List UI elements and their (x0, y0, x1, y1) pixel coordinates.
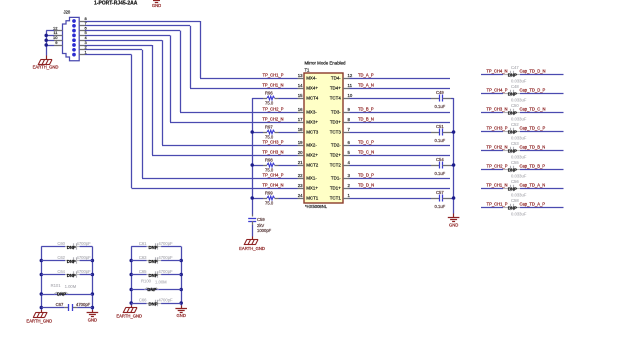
svg-text:10: 10 (53, 35, 58, 40)
svg-text:C49: C49 (436, 90, 444, 95)
svg-text:TCT3: TCT3 (330, 130, 342, 135)
capacitor C61 4700pF DNP (131, 246, 146, 248)
svg-text:EARTH_GND: EARTH_GND (116, 314, 142, 319)
J20 pin 10 stub (54, 40, 63, 42)
junction ladder right rail (91, 292, 95, 296)
svg-text:TCT4: TCT4 (330, 96, 342, 101)
earth ground stub (46, 56, 48, 60)
wire J20 pin 4 vertical drop (162, 40, 164, 145)
wire J20 pin 1 vertical drop (131, 55, 133, 188)
earth ground EARTH_GND (ladder) (41, 310, 43, 312)
connector J20 pin contact 3 (72, 43, 76, 47)
T1 pin 1 (TCT1) (343, 198, 350, 200)
wire ladder left rail (131, 247, 133, 306)
capacitor C67 4700pF (41, 307, 64, 309)
wire J20 pin 1 horizontal (85, 54, 132, 56)
svg-text:0.033uF: 0.033uF (511, 154, 527, 159)
svg-text:TD2+: TD2+ (330, 153, 341, 158)
T1 pin 16 (MX3-) (298, 112, 305, 114)
capacitor C66 4700pF DNP (131, 303, 146, 305)
junction ladder left rail (40, 273, 44, 277)
capacitor C57 0.1uF (350, 198, 432, 200)
svg-text:MX3-: MX3- (306, 110, 317, 115)
svg-text:TD_B_N: TD_B_N (358, 117, 374, 122)
J20 pin 7 stub (79, 25, 85, 27)
connector J20 pin contact 6 (72, 29, 76, 33)
wire net Cap_TD_C_P (520, 131, 564, 133)
svg-text:T1: T1 (305, 68, 311, 73)
wire into transformer row y=155 (152, 155, 298, 157)
svg-text:21: 21 (298, 160, 303, 165)
junction TCT bus (452, 163, 456, 167)
svg-text:C52: C52 (511, 122, 519, 127)
svg-text:13: 13 (298, 73, 303, 78)
resistor R100 1.00M DNP (131, 289, 181, 291)
svg-text:DNP: DNP (67, 259, 76, 264)
capacitor C47 0.033uF DNP (503, 74, 510, 76)
capacitor C62 4700pF DNP (41, 260, 65, 262)
svg-text:TD_C_N: TD_C_N (358, 150, 374, 155)
svg-text:TD_D_N: TD_D_N (358, 183, 374, 188)
svg-text:4700pF: 4700pF (158, 298, 173, 303)
svg-text:TD1+: TD1+ (330, 186, 341, 191)
wire J20 pin 2 vertical drop (142, 50, 144, 178)
svg-text:MCT3: MCT3 (306, 130, 319, 135)
svg-text:DNP: DNP (57, 292, 66, 297)
wire MCT common rail (252, 98, 254, 215)
ground GND (ladder) (181, 306, 183, 309)
svg-text:75.0: 75.0 (265, 168, 274, 173)
svg-text:0.1uF: 0.1uF (435, 171, 446, 176)
ground GND (TCT bus) (453, 214, 455, 218)
resistor R97 75.0 (252, 132, 263, 134)
svg-text:DNP: DNP (149, 301, 158, 306)
capacitor C53 0.033uF DNP (503, 150, 510, 152)
svg-text:18: 18 (298, 127, 303, 132)
wire net TP_CH2_N (481, 150, 503, 152)
svg-text:TD_A_N: TD_A_N (358, 83, 374, 88)
junction ladder left rail (129, 301, 133, 305)
svg-text:Cap_TD_C_N: Cap_TD_C_N (520, 107, 546, 112)
svg-text:C57: C57 (436, 190, 444, 195)
capacitor C59 2kV 1000pF (252, 215, 254, 217)
resistor R99 75.0 (252, 198, 263, 200)
svg-text:1.00M: 1.00M (155, 280, 167, 285)
wire net TD_B_N (350, 122, 451, 124)
svg-text:C48: C48 (511, 84, 519, 89)
svg-text:TP_CH1_P: TP_CH1_P (487, 202, 508, 207)
T1 pin 5 (TD2+) (343, 155, 350, 157)
wire net Cap_TD_C_N (520, 112, 564, 114)
svg-text:0.033uF: 0.033uF (511, 135, 527, 140)
svg-text:C47: C47 (511, 65, 519, 70)
svg-text:R99: R99 (265, 191, 273, 196)
junction ladder right rail (91, 273, 95, 277)
T1 pin 2 (TD1+) (343, 188, 350, 190)
T1 pin 20 (MX2+) (298, 155, 305, 157)
junction ladder left rail (40, 292, 44, 296)
junction MCT rail (250, 130, 254, 134)
ground GND (ladder) (92, 310, 94, 313)
capacitor C50 0.033uF DNP (503, 112, 510, 114)
junction ladder right rail (179, 259, 183, 263)
wire J20 pin 2 horizontal (85, 49, 142, 51)
svg-text:C55: C55 (511, 160, 519, 165)
svg-text:1.00M: 1.00M (65, 284, 77, 289)
junction ladder left rail (129, 288, 133, 292)
svg-text:23: 23 (298, 183, 303, 188)
T1 pin 18 (MCT3) (298, 132, 305, 134)
svg-text:20: 20 (298, 150, 303, 155)
wire net TD_B_P (350, 112, 451, 114)
svg-text:1000pF: 1000pF (257, 228, 272, 233)
wire net TP_CH2_P (481, 169, 503, 171)
svg-text:TP_CH4_N: TP_CH4_N (486, 69, 507, 74)
svg-text:TD4-: TD4- (331, 76, 341, 81)
wire into transformer row y=112 (180, 112, 298, 114)
wire J20 pin 7 horizontal (85, 25, 190, 27)
T1 pin 22 (MX1-) (298, 178, 305, 180)
wire J20 pin 8 vertical drop (200, 21, 202, 78)
svg-text:R101: R101 (51, 283, 62, 288)
svg-text:TP_CH4_N: TP_CH4_N (262, 183, 283, 188)
T1 pin 14 (MX4+) (298, 88, 305, 90)
junction ladder left rail (40, 306, 44, 310)
svg-text:TP_CH4_P: TP_CH4_P (263, 173, 284, 178)
J20 pin 8 stub (79, 21, 85, 23)
wire J20 pin 5 horizontal (85, 35, 170, 37)
svg-text:12: 12 (53, 25, 58, 30)
svg-text:22: 22 (298, 173, 303, 178)
T1 pin 17 (MX3+) (298, 122, 305, 124)
wire into transformer row y=145 (162, 145, 298, 147)
svg-text:DNP: DNP (147, 287, 156, 292)
svg-text:R100: R100 (141, 279, 152, 284)
J20 pin 9 stub (54, 45, 63, 47)
svg-text:TP_CH1_N: TP_CH1_N (262, 83, 283, 88)
svg-text:DNP: DNP (67, 245, 76, 250)
svg-text:GND: GND (152, 3, 161, 8)
connector J20 pin contact 2 (72, 48, 76, 52)
svg-text:Cap_TD_C_P: Cap_TD_C_P (520, 126, 546, 131)
T1 pin 19 (MX2-) (298, 145, 305, 147)
T1 pin 23 (MX1+) (298, 188, 305, 190)
svg-text:75.0: 75.0 (265, 201, 274, 206)
J20 pin 5 stub (79, 35, 85, 37)
T1 pin 4 (TCT2) (343, 165, 350, 167)
svg-text:TP_CH2_P: TP_CH2_P (263, 107, 284, 112)
svg-text:EARTH_GND: EARTH_GND (33, 65, 59, 70)
svg-text:DNP: DNP (508, 73, 517, 78)
T1 pin 15 (MCT4) (298, 98, 305, 100)
wire net TD_A_P (350, 78, 451, 80)
wire J20 pin 5 vertical drop (170, 35, 172, 122)
svg-text:TP_CH3_P: TP_CH3_P (263, 140, 284, 145)
svg-text:TCT2: TCT2 (330, 163, 342, 168)
connector J20 body (63, 17, 80, 60)
wire J20 pin 6 horizontal (85, 30, 180, 32)
capacitor C48 0.033uF DNP (503, 93, 510, 95)
svg-text:C51: C51 (436, 124, 444, 129)
wire net TP_CH3_P (481, 131, 503, 133)
svg-text:MX4-: MX4- (306, 76, 317, 81)
svg-text:4700pF: 4700pF (158, 255, 173, 260)
svg-text:Cap_TD_B_P: Cap_TD_B_P (520, 164, 546, 169)
svg-text:*HX5008NL: *HX5008NL (305, 204, 328, 209)
connector J20 pin contact 5 (72, 34, 76, 38)
svg-text:MX2+: MX2+ (306, 153, 318, 158)
wire ladder right rail (92, 247, 94, 311)
svg-text:10: 10 (348, 93, 353, 98)
wire J20 pin 3 vertical drop (152, 45, 154, 155)
capacitor C49 0.1uF (350, 98, 432, 100)
svg-text:GND: GND (449, 223, 458, 228)
junction TCT bus (452, 130, 456, 134)
svg-text:19: 19 (298, 140, 303, 145)
svg-text:C58: C58 (511, 198, 519, 203)
resistor R96 75.0 (252, 98, 263, 100)
capacitor C60 4700pF DNP (41, 246, 65, 248)
svg-text:TD1-: TD1- (331, 176, 341, 181)
svg-text:C63: C63 (139, 255, 147, 260)
svg-text:TP_CH4_P: TP_CH4_P (487, 88, 508, 93)
junction ladder left rail (40, 259, 44, 263)
junction on shield rail (44, 38, 48, 42)
svg-text:4700pF: 4700pF (77, 255, 92, 260)
svg-text:17: 17 (298, 117, 303, 122)
svg-text:TP_CH3_P: TP_CH3_P (487, 126, 508, 131)
svg-text:C64: C64 (57, 269, 65, 274)
wire into transformer row y=78 (200, 78, 298, 80)
svg-text:R96: R96 (265, 91, 273, 96)
svg-text:4700pF: 4700pF (158, 241, 173, 246)
svg-text:DNP: DNP (149, 259, 158, 264)
svg-text:14: 14 (298, 83, 303, 88)
junction MCT rail (250, 196, 254, 200)
T1 pin 7 (TCT3) (343, 132, 350, 134)
svg-text:R97: R97 (265, 125, 273, 130)
svg-text:0.033uF: 0.033uF (511, 211, 527, 216)
svg-text:C53: C53 (511, 141, 519, 146)
wire net Cap_TD_A_P (520, 207, 564, 209)
svg-text:DNP: DNP (508, 206, 517, 211)
svg-text:0.1uF: 0.1uF (435, 138, 446, 143)
svg-text:0.1uF: 0.1uF (435, 204, 446, 209)
svg-text:TD_A_P: TD_A_P (358, 73, 374, 78)
T1 pin 11 (TD4+) (343, 88, 350, 90)
J20 pin 1 stub (79, 54, 85, 56)
wire ladder right rail (181, 247, 183, 306)
wire TCT ground bus (453, 98, 455, 214)
svg-text:0.033uF: 0.033uF (511, 78, 527, 83)
capacitor C56 0.033uF DNP (503, 188, 510, 190)
svg-text:J20: J20 (64, 10, 71, 15)
svg-text:TD2-: TD2- (331, 143, 341, 148)
capacitor C52 0.033uF DNP (503, 131, 510, 133)
capacitor C63 4700pF DNP (131, 260, 146, 262)
svg-text:Cap_TD_D_P: Cap_TD_D_P (520, 88, 546, 93)
wire into transformer row y=188 (132, 188, 298, 190)
svg-text:MCT1: MCT1 (306, 196, 319, 201)
svg-text:11: 11 (348, 83, 353, 88)
svg-text:C50: C50 (511, 103, 519, 108)
svg-text:EARTH_GND: EARTH_GND (26, 318, 52, 323)
junction on shield rail (44, 43, 48, 47)
wire shield rail vertical (46, 31, 48, 56)
capacitor C51 0.1uF (350, 132, 432, 134)
T1 pin 21 (MCT2) (298, 165, 305, 167)
svg-text:15: 15 (298, 93, 303, 98)
svg-text:EARTH_GND: EARTH_GND (239, 246, 265, 251)
svg-text:TD4+: TD4+ (330, 86, 341, 91)
connector J20 pin contact 7 (72, 24, 76, 28)
junction ladder left rail (129, 259, 133, 263)
transformer T1 body (304, 73, 343, 203)
T1 pin 12 (TD4-) (343, 78, 350, 80)
wire net TP_CH4_P (481, 93, 503, 95)
svg-text:Cap_TD_D_N: Cap_TD_D_N (520, 69, 546, 74)
svg-text:TP_CH3_N: TP_CH3_N (262, 150, 283, 155)
svg-text:0.033uF: 0.033uF (511, 192, 527, 197)
junction MCT rail (250, 163, 254, 167)
svg-text:DNP: DNP (149, 245, 158, 250)
svg-text:MX1-: MX1- (306, 176, 317, 181)
svg-text:1-PORT-RJ45-2AA: 1-PORT-RJ45-2AA (94, 0, 138, 6)
svg-text:C67: C67 (56, 302, 64, 307)
svg-text:DNP: DNP (508, 130, 517, 135)
svg-text:TD3+: TD3+ (330, 120, 341, 125)
connector J20 pin contact 4 (72, 38, 76, 42)
svg-text:C59: C59 (257, 217, 265, 222)
wire net Cap_TD_B_P (520, 169, 564, 171)
wire net TP_CH1_N (481, 188, 503, 190)
svg-text:C66: C66 (139, 298, 147, 303)
wire into transformer row y=178 (142, 178, 298, 180)
T1 pin 13 (MX4-) (298, 78, 305, 80)
svg-text:TP_CH2_P: TP_CH2_P (487, 164, 508, 169)
junction ladder right rail (91, 259, 95, 263)
junction ladder right rail (179, 301, 183, 305)
wire J20 pin 7 vertical drop (190, 26, 192, 88)
svg-text:MX4+: MX4+ (306, 86, 318, 91)
wire net TD_D_P (350, 178, 451, 180)
svg-text:4700pF: 4700pF (76, 302, 91, 307)
wire into transformer row y=122 (170, 122, 298, 124)
svg-text:TP_CH3_N: TP_CH3_N (486, 107, 507, 112)
capacitor C65 4700pF DNP (131, 274, 146, 276)
svg-text:4700pF: 4700pF (77, 269, 92, 274)
svg-text:TCT1: TCT1 (330, 196, 342, 201)
T1 pin 24 (MCT1) (298, 198, 305, 200)
svg-text:75.0: 75.0 (265, 101, 274, 106)
capacitor C54 0.1uF (350, 165, 432, 167)
wire net TP_CH1_P (481, 207, 503, 209)
junction ladder right rail (179, 288, 183, 292)
svg-text:24: 24 (298, 193, 303, 198)
svg-text:4700pF: 4700pF (77, 241, 92, 246)
svg-text:C62: C62 (57, 255, 65, 260)
wire J20 pin 6 vertical drop (180, 31, 182, 112)
svg-text:DNP: DNP (508, 168, 517, 173)
junction ladder right rail (179, 273, 183, 277)
svg-text:DNP: DNP (508, 111, 517, 116)
wire J20 pin 11 to rail (46, 35, 54, 37)
svg-text:C60: C60 (57, 241, 65, 246)
svg-text:MX1+: MX1+ (306, 186, 318, 191)
capacitor C55 0.033uF DNP (503, 169, 510, 171)
svg-text:TD_C_P: TD_C_P (358, 140, 374, 145)
junction TCT bus (452, 196, 456, 200)
earth ground EARTH_GND (ladder) (131, 306, 133, 308)
T1 pin 10 (TCT4) (343, 98, 350, 100)
svg-text:12: 12 (348, 73, 353, 78)
wire net Cap_TD_A_N (520, 188, 564, 190)
svg-text:TD_D_P: TD_D_P (358, 173, 374, 178)
svg-text:GND: GND (88, 318, 97, 323)
J20 pin 3 stub (79, 45, 85, 47)
T1 pin 8 (TD3+) (343, 122, 350, 124)
svg-text:Cap_TD_A_P: Cap_TD_A_P (520, 202, 546, 207)
svg-text:0.033uF: 0.033uF (511, 116, 527, 121)
capacitor C64 4700pF DNP (41, 274, 65, 276)
ground GND (top, clipped) (153, 0, 160, 2)
connector J20 pin contact 8 (72, 19, 76, 23)
svg-text:0.033uF: 0.033uF (511, 173, 527, 178)
svg-text:Cap_TD_B_N: Cap_TD_B_N (520, 145, 546, 150)
svg-text:DNP: DNP (508, 187, 517, 192)
J20 pin 6 stub (79, 30, 85, 32)
J20 pin 2 stub (79, 49, 85, 51)
svg-text:2kV: 2kV (257, 223, 264, 228)
earth ground EARTH_GND (C59) (252, 237, 254, 240)
connector J20 pin contact 1 (72, 53, 76, 57)
earth ground EARTH_GND (connector) (41, 59, 52, 61)
wire J20 pin 4 horizontal (85, 40, 162, 42)
wire net TP_CH4_N (481, 74, 503, 76)
junction on shield rail (44, 34, 48, 38)
wire net TD_C_N (350, 155, 451, 157)
svg-text:DNP: DNP (508, 149, 517, 154)
svg-text:75.0: 75.0 (265, 135, 274, 140)
wire net TP_CH3_N (481, 112, 503, 114)
svg-text:Mirror Mode Enabled: Mirror Mode Enabled (305, 61, 347, 66)
J20 pin 12 stub (54, 30, 63, 32)
svg-text:0.1uF: 0.1uF (435, 104, 446, 109)
wire J20 pin 9 to rail (46, 45, 54, 47)
wire net TD_D_N (350, 188, 451, 190)
wire net Cap_TD_B_N (520, 150, 564, 152)
svg-text:TP_CH2_N: TP_CH2_N (486, 145, 507, 150)
svg-text:C61: C61 (139, 241, 147, 246)
svg-text:16: 16 (298, 107, 303, 112)
svg-text:MCT4: MCT4 (306, 96, 319, 101)
J20 pin 4 stub (79, 40, 85, 42)
J20 pin 11 stub (54, 35, 63, 37)
svg-text:MCT2: MCT2 (306, 163, 319, 168)
svg-text:Cap_TD_A_N: Cap_TD_A_N (520, 183, 546, 188)
svg-text:DNP: DNP (508, 92, 517, 97)
wire J20 pin 10 to rail (46, 40, 54, 42)
svg-text:0.033uF: 0.033uF (511, 97, 527, 102)
junction ladder right rail (91, 306, 95, 310)
svg-text:TD3-: TD3- (331, 110, 341, 115)
wire net TD_C_P (350, 145, 451, 147)
wire into transformer row y=88 (190, 88, 298, 90)
svg-text:TP_CH1_N: TP_CH1_N (486, 183, 507, 188)
svg-text:TP_CH2_N: TP_CH2_N (262, 117, 283, 122)
svg-text:R98: R98 (265, 158, 273, 163)
svg-text:C56: C56 (511, 179, 519, 184)
